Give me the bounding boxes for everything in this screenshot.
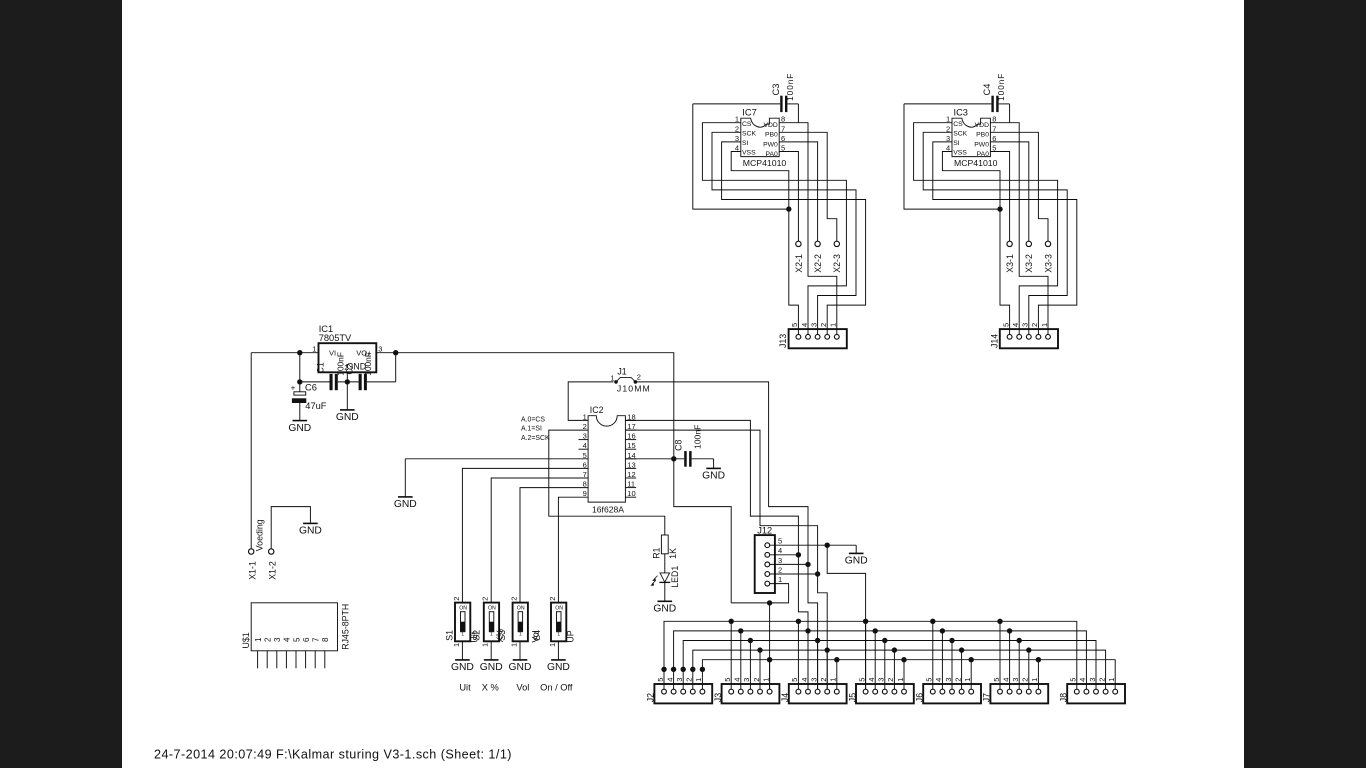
svg-text:4: 4: [1078, 678, 1087, 682]
svg-text:X2-1: X2-1: [794, 254, 804, 273]
wire X1-1 to IC1 input: [250, 353, 252, 549]
wire connector J5 pin stubs: [863, 619, 907, 690]
svg-text:GND: GND: [288, 423, 311, 434]
svg-text:GND: GND: [547, 662, 570, 673]
svg-text:1: 1: [452, 643, 461, 647]
svg-text:4: 4: [800, 678, 809, 682]
wire IC7 PW0 pin6 to X2-2: [779, 142, 817, 241]
svg-text:1: 1: [461, 632, 464, 638]
svg-text:2: 2: [1097, 678, 1106, 682]
svg-text:A.2=SCK: A.2=SCK: [521, 435, 550, 442]
annotation A.2=SCK: [521, 435, 550, 442]
wire connector J6 pin stubs: [930, 619, 974, 690]
svg-text:1: 1: [481, 643, 490, 647]
svg-text:J14: J14: [989, 334, 999, 348]
svg-text:IC2: IC2: [590, 405, 604, 415]
svg-text:2: 2: [481, 597, 490, 601]
svg-text:GND: GND: [480, 662, 503, 673]
test point X1-1 Voeding: [247, 519, 264, 580]
connector J12: [755, 526, 782, 593]
svg-text:1: 1: [963, 678, 972, 682]
label X %: [482, 683, 499, 693]
test point X3-2: [1024, 241, 1034, 273]
svg-text:1: 1: [829, 678, 838, 682]
svg-text:1: 1: [490, 632, 493, 638]
digital potentiometer IC3 MCP41010: [952, 108, 998, 169]
label Uit: [459, 683, 471, 693]
svg-text:X1-1: X1-1: [247, 561, 257, 580]
capacitor C8 100nF: [674, 425, 714, 469]
svg-text:100nF: 100nF: [693, 425, 703, 449]
svg-text:2: 2: [819, 678, 828, 682]
wire J12 pin4: [770, 554, 799, 556]
svg-text:5: 5: [857, 678, 866, 682]
wire IC7 CS pin1 to J13 pin4: [702, 123, 846, 329]
svg-text:GND: GND: [653, 604, 676, 615]
connector J7: [982, 678, 1049, 704]
wire IC2 pin7 to switch S2: [491, 478, 588, 603]
svg-text:GND: GND: [299, 526, 322, 537]
IC2 pin numbers right: [627, 412, 635, 498]
svg-text:1: 1: [254, 637, 263, 642]
svg-text:3: 3: [1011, 678, 1020, 682]
svg-text:4: 4: [1011, 323, 1020, 327]
connector J13: [778, 323, 847, 348]
svg-text:X3-3: X3-3: [1043, 254, 1053, 273]
test point X3-1: [1005, 241, 1015, 273]
svg-text:C3: C3: [771, 84, 781, 96]
svg-text:J12: J12: [757, 526, 772, 536]
switch S3: [497, 597, 541, 647]
svg-text:GND: GND: [702, 471, 725, 482]
svg-text:C1: C1: [316, 362, 326, 373]
svg-text:SCK: SCK: [953, 131, 967, 138]
svg-text:SI: SI: [953, 140, 960, 147]
title block date and filename: [154, 747, 512, 761]
svg-text:1: 1: [1040, 323, 1049, 327]
wire IC3 PB0 pin7 to X3-3: [990, 132, 1048, 241]
junction +5V C8: [671, 456, 676, 461]
label Vol: [516, 683, 529, 693]
svg-text:LED1: LED1: [670, 566, 680, 588]
svg-text:1: 1: [778, 575, 782, 584]
wire IC3 SCK pin2 to J14 pin3: [923, 132, 1067, 329]
svg-text:X3-1: X3-1: [1005, 254, 1015, 273]
svg-text:RJ45-8PTH: RJ45-8PTH: [341, 604, 351, 650]
svg-text:2: 2: [953, 678, 962, 682]
svg-text:Voeding: Voeding: [255, 519, 265, 551]
svg-text:UP: UP: [566, 630, 576, 642]
svg-text:5: 5: [790, 678, 799, 682]
wire IC3 VDD pin8 to J14 pin1: [990, 104, 1048, 329]
svg-text:2: 2: [452, 597, 461, 601]
wire bus row5 riser: [769, 603, 771, 689]
svg-text:PB0: PB0: [976, 132, 989, 139]
wire J1 pin2 to J12 pin3 and bus row3: [635, 382, 817, 689]
wire switch S3 to ground: [519, 641, 521, 660]
svg-text:2: 2: [778, 565, 782, 574]
wire connector J4 pin stubs: [796, 619, 840, 690]
capacitor C1 100nF: [330, 374, 359, 390]
wire bus row 4: [693, 650, 1106, 689]
ground S3: [509, 660, 532, 673]
wire IC2 pin8 to switch S3: [520, 488, 588, 603]
switch S4: [532, 597, 575, 647]
test point X1-2: [267, 549, 277, 580]
ground C6: [288, 421, 311, 434]
svg-text:4: 4: [867, 678, 876, 682]
wire input cap rail: [300, 353, 330, 392]
svg-text:2: 2: [548, 597, 557, 601]
test point X2-2: [813, 241, 823, 273]
svg-text:4: 4: [800, 323, 809, 327]
svg-text:ON: ON: [517, 606, 525, 612]
svg-text:C6: C6: [305, 382, 317, 392]
svg-text:3: 3: [877, 678, 886, 682]
svg-text:MCP41010: MCP41010: [954, 158, 998, 168]
svg-text:J1: J1: [617, 366, 626, 376]
test point X3-3: [1043, 241, 1053, 273]
junction row5 riser: [767, 600, 772, 605]
junction VSS C4: [997, 206, 1002, 211]
junction J12 pin3: [805, 562, 810, 567]
ground J12: [845, 553, 868, 566]
svg-text:3: 3: [675, 678, 684, 682]
svg-text:100nF: 100nF: [997, 73, 1006, 101]
IC2 unconnected pin stubs: [579, 420, 637, 497]
junction dots J2 pin stubs: [661, 667, 705, 672]
wire C3 left plate to VSS net: [693, 104, 789, 209]
annotation A.1=SI: [521, 426, 542, 433]
IC1 internal overlapping labels: [316, 352, 374, 376]
svg-text:2: 2: [886, 678, 895, 682]
wire J12 pin3: [770, 563, 808, 565]
svg-text:2: 2: [637, 372, 641, 381]
wire IC7 VDD pin8 to J13 pin1: [779, 104, 837, 329]
wire IC2 pin5 to ground: [405, 459, 588, 497]
svg-text:1: 1: [761, 678, 770, 682]
svg-text:3: 3: [742, 678, 751, 682]
wire LED1 cathode to ground: [664, 582, 666, 601]
svg-text:CS: CS: [953, 121, 963, 128]
svg-text:2: 2: [819, 323, 828, 327]
wire IC3 PA0 pin5 to X3-1: [990, 152, 1009, 242]
svg-text:J13: J13: [778, 334, 788, 348]
svg-text:C2: C2: [344, 363, 354, 374]
svg-text:1: 1: [519, 632, 522, 638]
digital potentiometer IC7 MCP41010: [741, 108, 787, 169]
svg-text:J8: J8: [1059, 693, 1069, 702]
svg-text:ON: ON: [488, 606, 496, 612]
svg-text:5: 5: [790, 323, 799, 327]
connector J6: [915, 678, 982, 704]
svg-text:2: 2: [510, 597, 519, 601]
junction J12 pin2: [815, 571, 820, 576]
svg-text:C8: C8: [674, 440, 684, 451]
capacitor C2 100nF: [359, 353, 396, 390]
svg-text:S4: S4: [532, 630, 542, 641]
svg-text:100nF: 100nF: [363, 352, 373, 376]
svg-text:C4: C4: [982, 84, 992, 96]
connector J14: [989, 323, 1058, 348]
connector J8: [1059, 678, 1126, 704]
wire R1 to LED1: [664, 554, 666, 573]
ground LED1: [653, 601, 676, 614]
test point X2-3: [832, 241, 842, 273]
wire IC1 ground pin2: [346, 372, 348, 410]
svg-text:J10MM: J10MM: [617, 383, 651, 393]
svg-text:16f628A: 16f628A: [592, 505, 624, 515]
wire IC2 pin9 to switch S4: [558, 497, 588, 602]
svg-text:VSS: VSS: [953, 150, 967, 157]
svg-text:5: 5: [1001, 323, 1010, 327]
wire IC2 pin14 supply: [625, 458, 684, 460]
svg-text:PA0: PA0: [765, 151, 778, 158]
svg-text:J6: J6: [915, 693, 925, 702]
svg-text:6: 6: [302, 637, 311, 642]
svg-text:1: 1: [610, 374, 614, 383]
connector U$1 RJ45-8PTH: [241, 603, 351, 669]
svg-text:MCP41010: MCP41010: [743, 158, 787, 168]
svg-text:PA0: PA0: [977, 151, 990, 158]
IC7 pin numbers: [735, 115, 785, 153]
svg-text:4: 4: [934, 678, 943, 682]
svg-text:IC3: IC3: [954, 108, 968, 118]
svg-text:J7: J7: [982, 693, 992, 702]
svg-text:SI: SI: [742, 140, 749, 147]
svg-text:GND: GND: [394, 499, 417, 510]
svg-text:7805TV: 7805TV: [319, 333, 352, 343]
jumper J1 J10MM: [610, 366, 650, 393]
svg-text:4: 4: [665, 678, 674, 682]
svg-text:J5: J5: [847, 693, 857, 702]
svg-text:Uit: Uit: [459, 683, 471, 693]
svg-text:1: 1: [557, 632, 560, 638]
svg-text:4: 4: [1001, 678, 1010, 682]
svg-text:Vol: Vol: [516, 683, 529, 693]
label On / Off: [540, 683, 573, 693]
svg-text:VSS: VSS: [742, 150, 756, 157]
wire IC2 pin17 to J12 pin2 and bus row4: [625, 430, 827, 689]
svg-text:J3: J3: [713, 693, 723, 702]
svg-text:5: 5: [1069, 678, 1078, 682]
ground X1-2: [299, 523, 322, 536]
ground S1: [451, 660, 474, 673]
wire IC7 PA0 pin5 to X2-1: [779, 152, 798, 242]
svg-text:IC7: IC7: [742, 108, 756, 118]
svg-text:1: 1: [694, 678, 703, 682]
svg-text:ON: ON: [555, 606, 563, 612]
wire IC3 SI pin3 to J14 pin2: [933, 142, 1077, 329]
wire IC3 VSS pin4 to J14 pin5: [942, 152, 1009, 330]
svg-text:X2-2: X2-2: [813, 254, 823, 273]
svg-text:S2: S2: [472, 630, 482, 641]
ground S2: [480, 660, 503, 673]
junction J12 pin4: [796, 552, 801, 557]
svg-text:5: 5: [292, 637, 301, 642]
svg-text:S3: S3: [497, 630, 507, 641]
svg-text:5: 5: [925, 678, 934, 682]
resistor R1 1K: [652, 535, 679, 559]
svg-text:2: 2: [1030, 323, 1039, 327]
svg-text:1: 1: [1107, 678, 1116, 682]
svg-text:GND: GND: [451, 662, 474, 673]
junction C6 input: [297, 350, 302, 355]
ground S4: [547, 660, 570, 673]
svg-text:24-7-2014 20:07:49 F:\Kalmar: 24-7-2014 20:07:49 F:\Kalmar sturing V3-…: [154, 747, 512, 761]
wire C4 left plate to VSS net: [904, 104, 1000, 209]
wire IC2 pin1 to J1: [568, 382, 613, 421]
svg-text:J2: J2: [646, 693, 656, 702]
svg-text:CS: CS: [742, 121, 752, 128]
wire gnd net to bus row1: [827, 545, 865, 689]
wire bus row 2: [674, 631, 1087, 689]
svg-text:SCK: SCK: [742, 131, 756, 138]
svg-text:+: +: [291, 383, 296, 392]
IC2 pin numbers left: [583, 412, 587, 498]
svg-text:3: 3: [809, 323, 818, 327]
junction IC1 ground: [345, 379, 350, 384]
annotation A.0=CS: [521, 416, 545, 423]
junction VSS C3: [786, 206, 791, 211]
svg-text:X3-2: X3-2: [1024, 254, 1034, 273]
svg-text:3: 3: [809, 678, 818, 682]
svg-text:1: 1: [829, 323, 838, 327]
svg-text:2: 2: [685, 678, 694, 682]
test point X2-1: [794, 241, 804, 273]
svg-text:PW0: PW0: [974, 141, 989, 148]
ground IC1: [336, 410, 359, 423]
led LED1: [650, 566, 680, 588]
svg-text:X1-2: X1-2: [267, 561, 277, 580]
svg-text:5: 5: [656, 678, 665, 682]
svg-text:J4: J4: [780, 693, 790, 702]
connector J4: [780, 678, 847, 704]
junction IC1 output: [393, 350, 398, 355]
wire bus row 5: [702, 660, 1115, 690]
svg-text:2: 2: [1021, 678, 1030, 682]
svg-text:4: 4: [778, 546, 782, 555]
svg-text:3: 3: [944, 678, 953, 682]
wire IC7 SI pin3 to J13 pin2: [722, 142, 866, 329]
wire J12 pin5 to ground: [770, 545, 857, 553]
svg-text:4: 4: [283, 637, 292, 642]
capacitor C6 47uF electrolytic: [291, 382, 327, 420]
svg-text:1: 1: [548, 643, 557, 647]
svg-text:GND: GND: [845, 556, 868, 567]
wire bus row 3: [683, 641, 1096, 690]
svg-text:8: 8: [321, 637, 330, 642]
IC3 pin names: [953, 121, 989, 158]
wire connector J3 pin stubs: [729, 619, 773, 690]
wire IC7 SCK pin2 to J13 pin3: [712, 132, 856, 329]
svg-text:1: 1: [510, 643, 519, 647]
svg-text:47uF: 47uF: [305, 401, 327, 411]
svg-text:On / Off: On / Off: [540, 683, 573, 693]
svg-text:2: 2: [264, 637, 273, 642]
connector J3: [713, 678, 779, 704]
svg-text:5: 5: [992, 678, 1001, 682]
svg-text:PB0: PB0: [765, 132, 778, 139]
svg-text:1: 1: [1030, 678, 1039, 682]
svg-text:VDD: VDD: [763, 122, 777, 129]
wire IC2 pin18 to J12 pin4 and bus row2: [625, 420, 808, 689]
svg-text:S1: S1: [444, 630, 454, 641]
svg-text:R1: R1: [652, 547, 662, 558]
wire J12 pin2: [770, 573, 818, 575]
svg-text:A.0=CS: A.0=CS: [521, 416, 545, 423]
wire bus row 1: [664, 621, 1077, 689]
voltage regulator IC1 7805TV: [312, 324, 382, 373]
svg-text:5: 5: [723, 678, 732, 682]
svg-text:ON: ON: [459, 606, 467, 612]
svg-text:3: 3: [1021, 323, 1030, 327]
connector J2: [646, 678, 713, 704]
svg-text:VDD: VDD: [975, 122, 989, 129]
wire switch S2 to ground: [490, 641, 492, 660]
wire switch S4 to ground: [557, 641, 559, 660]
ground C8: [702, 468, 725, 481]
svg-text:X %: X %: [482, 683, 499, 693]
microcontroller IC2 16f628A: [588, 405, 625, 514]
wire switch S1 to ground: [461, 641, 463, 660]
ground IC2 pin5: [394, 497, 417, 510]
svg-text:X2-3: X2-3: [832, 254, 842, 273]
wire IC1 input pin1: [251, 352, 318, 354]
wire IC3 CS pin1 to J14 pin4: [914, 123, 1058, 329]
IC7 pin names: [742, 121, 778, 158]
svg-text:100nF: 100nF: [786, 73, 795, 101]
svg-text:7: 7: [312, 637, 321, 642]
wire IC2 pin2 to R1: [549, 430, 665, 535]
svg-text:3: 3: [778, 556, 782, 565]
wire IC7 VSS pin4 to J13 pin5: [731, 152, 798, 330]
svg-text:1: 1: [896, 678, 905, 682]
connector J5: [847, 678, 914, 704]
wire IC3 PW0 pin6 to X3-2: [990, 142, 1028, 241]
svg-text:3: 3: [273, 637, 282, 642]
IC3 pin numbers: [946, 115, 996, 153]
wire +5V rail from IC1 pin3: [376, 353, 731, 603]
svg-text:GND: GND: [509, 662, 532, 673]
junction rail left: [297, 379, 302, 384]
wire J12 pin1 to +5V: [731, 584, 788, 603]
svg-text:GND: GND: [336, 412, 359, 423]
svg-text:A.1=SI: A.1=SI: [521, 426, 542, 433]
switch S1: [444, 597, 479, 647]
svg-text:5: 5: [778, 537, 782, 546]
svg-text:PW0: PW0: [763, 141, 778, 148]
svg-text:3: 3: [1088, 678, 1097, 682]
capacitor C4 100nF: [904, 73, 1010, 112]
capacitor C3 100nF: [693, 73, 799, 112]
svg-text:4: 4: [733, 678, 742, 682]
wire IC2 pin6 to switch S1: [462, 468, 588, 602]
junction J12 pin5 gnd net: [825, 543, 830, 548]
wire IC7 PB0 pin7 to X2-3: [779, 132, 837, 241]
svg-text:2: 2: [752, 678, 761, 682]
svg-text:1K: 1K: [668, 548, 678, 559]
svg-text:U$1: U$1: [241, 632, 251, 648]
wire X1-2 to ground: [271, 507, 310, 549]
switch S2: [472, 597, 506, 647]
wire connector J7 pin stubs: [997, 619, 1041, 690]
